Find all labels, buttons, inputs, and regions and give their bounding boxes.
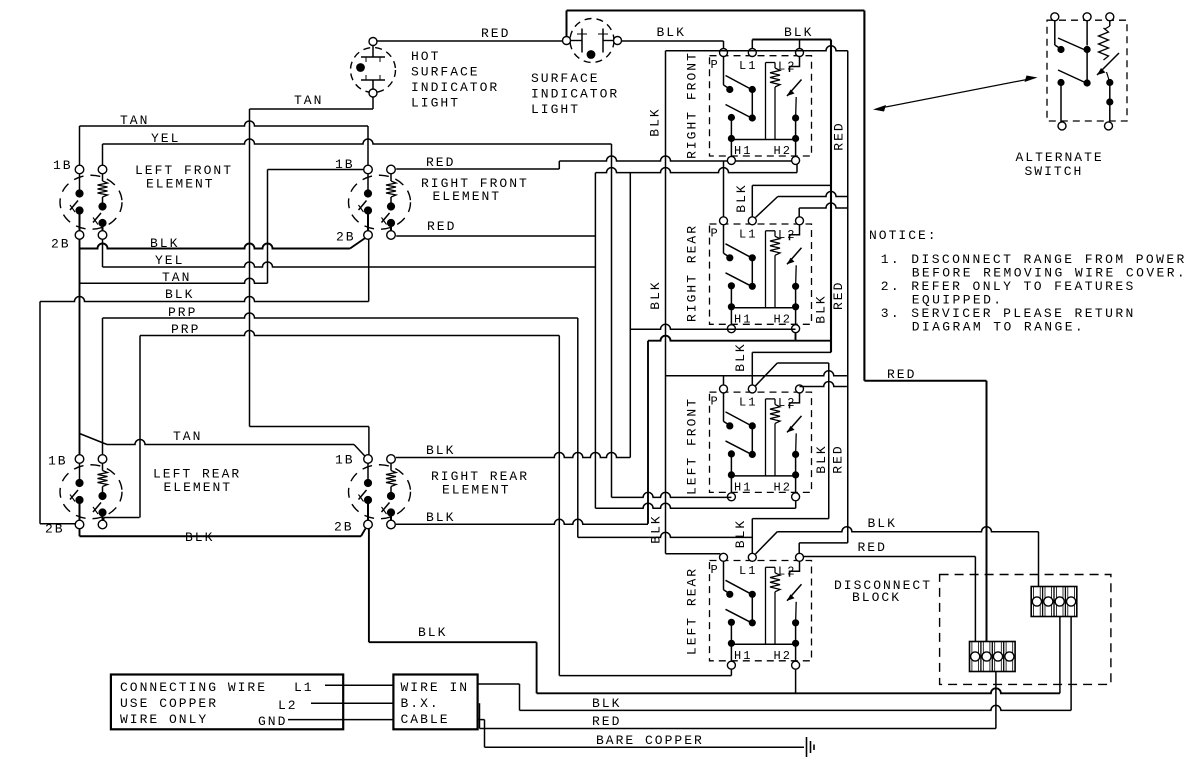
wire PRP to L1 block4 xyxy=(578,532,753,537)
wire L1 block4 diagonal BLK to disconnect xyxy=(756,527,1039,587)
svg-text:PRP: PRP xyxy=(168,305,197,320)
wire BLK right rear TR run xyxy=(396,453,630,458)
svg-text:B.X.: B.X. xyxy=(401,696,440,711)
svg-text:H2: H2 xyxy=(774,312,792,326)
label RED rotated block3-right xyxy=(831,444,846,473)
label BARE COPPER xyxy=(596,733,704,748)
label BLK rotated block4 L1 xyxy=(733,519,748,548)
label BLK right rear top xyxy=(426,443,455,458)
label DISCONNECT BLOCK xyxy=(834,578,932,605)
svg-text:BLK: BLK xyxy=(426,510,455,525)
svg-text:L2: L2 xyxy=(778,564,796,578)
svg-text:2B: 2B xyxy=(336,230,356,245)
svg-text:RIGHT REAR: RIGHT REAR xyxy=(685,224,700,322)
svg-text:RED: RED xyxy=(592,714,621,729)
wire L1 block3 diagonal to vertical 828 xyxy=(756,363,829,519)
svg-text:YEL: YEL xyxy=(151,131,180,146)
label L1 terminal xyxy=(294,680,314,695)
wire H2 block3 feed xyxy=(595,501,795,508)
wire RED hot-light to surface-light xyxy=(377,40,563,42)
wire TAN upper bus to both 1B terminals xyxy=(80,121,369,165)
svg-text:BLK: BLK xyxy=(814,294,829,323)
label LEFT FRONT ELEMENT xyxy=(135,163,233,192)
terminal strip upper xyxy=(1031,587,1077,617)
wire L2 block3 to vertical 847 xyxy=(800,382,847,387)
svg-text:L2: L2 xyxy=(278,698,298,713)
label 1B left front xyxy=(53,158,73,173)
svg-text:BLK: BLK xyxy=(733,342,748,371)
wire L1 block4 riser xyxy=(752,519,828,554)
svg-text:BLK: BLK xyxy=(426,443,455,458)
label RIGHT FRONT ELEMENT xyxy=(421,176,529,204)
svg-text:LIGHT: LIGHT xyxy=(411,96,460,111)
label BLK bottom xyxy=(592,696,621,711)
svg-text:BLK: BLK xyxy=(648,514,663,543)
svg-text:H2: H2 xyxy=(774,144,792,158)
svg-text:1B: 1B xyxy=(48,454,68,469)
wire L2 block4 jog from vertical 847 xyxy=(799,543,848,553)
wire PRP to H1 block4 xyxy=(559,669,731,675)
label SURFACE INDICATOR LIGHT xyxy=(531,71,619,117)
label YEL bus 267 xyxy=(155,253,184,268)
wire L1 block3 riser xyxy=(752,352,831,385)
svg-text:P: P xyxy=(711,58,720,72)
svg-text:P: P xyxy=(711,563,720,577)
svg-text:WIRE IN: WIRE IN xyxy=(401,680,470,695)
label TAN upper bus xyxy=(120,113,149,128)
svg-text:2B: 2B xyxy=(334,520,354,535)
svg-text:RED: RED xyxy=(858,540,887,555)
ground symbol xyxy=(807,737,815,757)
wire RED net top run (surface light left terminal over to right) xyxy=(567,11,865,381)
svg-text:GND: GND xyxy=(258,714,287,729)
wire RED bottom line from L2 through box xyxy=(480,703,996,728)
svg-text:L1: L1 xyxy=(739,227,757,241)
label BLK bottom mid xyxy=(418,625,447,640)
label BLK rotated block1-left xyxy=(648,107,663,136)
label NOTICE heading xyxy=(869,228,938,243)
wire RED main from top to disconnect xyxy=(864,381,986,642)
wire BLK to P4 xyxy=(666,553,721,555)
svg-text:SURFACE: SURFACE xyxy=(411,65,480,80)
label 2B left front xyxy=(51,237,71,252)
label BLK bus 301 xyxy=(165,287,194,302)
wire L1 leader xyxy=(325,684,393,686)
svg-text:BLK: BLK xyxy=(734,183,749,212)
label LEFT REAR rotated xyxy=(685,567,700,655)
switch block left front SW3 xyxy=(710,385,812,501)
label BLK top-1 xyxy=(657,25,686,40)
svg-text:L1: L1 xyxy=(739,564,757,578)
wire GND leader xyxy=(288,719,393,721)
label RED rotated block2-right xyxy=(831,281,846,310)
svg-text:L1: L1 xyxy=(739,395,757,409)
label RED top xyxy=(481,26,510,41)
svg-text:BLK: BLK xyxy=(814,444,829,473)
svg-text:H1: H1 xyxy=(734,312,752,326)
svg-text:RED: RED xyxy=(426,155,455,170)
svg-text:BARE COPPER: BARE COPPER xyxy=(596,733,704,748)
svg-text:RED: RED xyxy=(831,281,846,310)
svg-text:BLK: BLK xyxy=(784,25,813,40)
dashed box alternate switch xyxy=(1047,20,1127,121)
dashed box DISCONNECT BLOCK xyxy=(940,575,1111,685)
svg-text:H2: H2 xyxy=(774,480,792,494)
svg-text:L2: L2 xyxy=(778,396,796,410)
wire H2 block4 drop xyxy=(795,669,797,693)
switch block right front SW1 xyxy=(710,49,812,165)
wire BLK right rear BR run xyxy=(396,519,648,524)
label RED right front top xyxy=(426,155,455,170)
svg-text:LEFT FRONT: LEFT FRONT xyxy=(685,397,700,495)
svg-text:SURFACE: SURFACE xyxy=(531,71,600,86)
svg-text:HOT: HOT xyxy=(411,49,440,64)
svg-text:INDICATOR: INDICATOR xyxy=(531,87,619,102)
wire vertical from TAN-node to right rear 1B xyxy=(250,427,369,455)
label BLK rotated block2 L1 xyxy=(734,183,749,212)
wire YEL upper bus xyxy=(103,139,612,497)
svg-text:ELEMENT: ELEMENT xyxy=(164,480,233,495)
label 2B right rear xyxy=(334,520,354,535)
svg-text:H1: H1 xyxy=(734,480,752,494)
node vertical from TAN down left bus xyxy=(249,109,251,427)
wire BLK diag into L1 block2 xyxy=(756,192,848,218)
switch block left rear SW4 xyxy=(710,553,812,669)
svg-text:H1: H1 xyxy=(734,144,752,158)
wire RED right front element to H1 row xyxy=(396,156,795,169)
svg-text:PRP: PRP xyxy=(171,322,200,337)
wire far-left vertical to left rear 2B xyxy=(40,523,75,525)
element right rear xyxy=(349,455,411,529)
svg-text:TAN: TAN xyxy=(120,113,149,128)
svg-text:SWITCH: SWITCH xyxy=(1025,164,1084,179)
wire TAN bus 283 xyxy=(80,278,268,283)
svg-text:1B: 1B xyxy=(335,453,355,468)
svg-text:CABLE: CABLE xyxy=(401,712,450,727)
svg-text:BLK: BLK xyxy=(648,280,663,309)
label PRP bus 335 xyxy=(171,322,200,337)
label RIGHT REAR rotated xyxy=(685,224,700,322)
label RED disconnect feed xyxy=(887,367,916,382)
wire PRP bus 318 left rear TR to mid vertical xyxy=(103,313,578,537)
wire BLK vertical from corner 665 downward xyxy=(666,46,848,554)
label BLK top-2 xyxy=(784,25,813,40)
label BLK bus 248 xyxy=(150,236,179,251)
label RED lower feed xyxy=(858,540,887,555)
svg-text:CONNECTING WIRE: CONNECTING WIRE xyxy=(120,680,267,695)
svg-text:RED: RED xyxy=(832,121,847,150)
label BLK rotated block3-right xyxy=(814,444,829,473)
label WIRE IN B.X. CABLE xyxy=(401,680,470,727)
svg-text:2B: 2B xyxy=(51,237,71,252)
wire upper strip T4 down xyxy=(1070,617,1072,711)
svg-text:L1: L1 xyxy=(739,59,757,73)
svg-text:ELEMENT: ELEMENT xyxy=(146,177,215,192)
wire RED from L2 block4 to disconnect xyxy=(804,557,976,643)
svg-text:BLK: BLK xyxy=(150,236,179,251)
wire 1B jumper right front xyxy=(268,170,364,284)
svg-text:1B: 1B xyxy=(53,158,73,173)
svg-text:P: P xyxy=(711,226,720,240)
wire L1 block2 riser to 831 xyxy=(752,185,831,217)
wire H2 block1 jog to long bus xyxy=(595,165,797,173)
wire BLK bus left front 2B to right front 2B xyxy=(80,238,366,455)
wire L2 leader xyxy=(311,702,393,704)
element right front xyxy=(349,165,411,239)
label CONNECTING WIRE USE COPPER WIRE ONLY xyxy=(120,680,267,727)
wire upper strip T3 down xyxy=(1059,617,1061,694)
alternate switch internals xyxy=(1051,13,1119,130)
svg-text:H2: H2 xyxy=(774,649,792,663)
label notice item 1 xyxy=(881,252,1187,281)
wire TAN lower bus xyxy=(80,434,365,457)
svg-text:BLK: BLK xyxy=(648,107,663,136)
svg-text:INDICATOR: INDICATOR xyxy=(411,80,499,95)
svg-text:BLK: BLK xyxy=(165,287,194,302)
wire TAN hot-light drop xyxy=(250,97,374,109)
hot surface indicator light HS1 xyxy=(351,38,396,98)
wire PRP-140 to left rear BR xyxy=(104,518,140,521)
wire H1 block3 feed from YEL xyxy=(612,492,732,497)
label RIGHT FRONT rotated xyxy=(685,51,700,159)
svg-text:YEL: YEL xyxy=(155,253,184,268)
wire BLK from right rear 2B down to bottom xyxy=(369,529,537,694)
wire lower strip T3 down xyxy=(995,672,997,729)
arrow to alternate switch xyxy=(873,76,1038,112)
svg-text:P: P xyxy=(711,394,720,408)
wire H row block2 feed xyxy=(630,173,795,458)
wire PRP bus 335 to mid vertical xyxy=(140,331,559,676)
svg-text:BLK: BLK xyxy=(657,25,686,40)
label TAN hot-light xyxy=(294,93,323,108)
terminal strip lower xyxy=(970,642,1016,672)
wire BARE COPPER ground line xyxy=(478,720,804,748)
label LEFT REAR ELEMENT xyxy=(153,467,241,496)
svg-text:USE COPPER: USE COPPER xyxy=(120,696,218,711)
svg-text:RED: RED xyxy=(887,367,916,382)
wire H2 block2 jog to 831 xyxy=(648,333,831,524)
label BLK rotated block2-left xyxy=(648,280,663,309)
label PRP bus 318 xyxy=(168,305,197,320)
wire BLK surface-light to switch P1 xyxy=(622,41,724,48)
svg-text:BLOCK: BLOCK xyxy=(852,590,901,605)
label BLK right rear bottom xyxy=(426,510,455,525)
svg-text:L1: L1 xyxy=(294,680,314,695)
label TAN bus 283 xyxy=(162,270,191,285)
svg-text:BLK: BLK xyxy=(418,625,447,640)
wire L2 block2 riser jog xyxy=(799,203,848,217)
svg-text:RED: RED xyxy=(427,219,456,234)
label ALTERNATE SWITCH xyxy=(1016,150,1104,179)
label BLK disconnect feed xyxy=(868,516,897,531)
svg-text:H1: H1 xyxy=(734,649,752,663)
wire BLK to P3 xyxy=(666,371,847,386)
label RED right front bottom xyxy=(427,219,456,234)
box WIRE IN B.X. CABLE xyxy=(393,675,477,730)
wire P2 riser xyxy=(723,161,725,217)
wire YEL bus left front BR to vertical xyxy=(103,239,596,267)
label RED bottom xyxy=(592,714,621,729)
svg-text:RED: RED xyxy=(831,444,846,473)
svg-text:TAN: TAN xyxy=(162,270,191,285)
svg-text:LIGHT: LIGHT xyxy=(531,102,580,117)
svg-text:ALTERNATE: ALTERNATE xyxy=(1016,150,1104,165)
label LEFT FRONT rotated xyxy=(685,397,700,495)
svg-text:WIRE ONLY: WIRE ONLY xyxy=(120,712,208,727)
label YEL upper bus xyxy=(151,131,180,146)
wire RED right front bottom to vertical bus xyxy=(396,173,595,509)
label L2 terminal xyxy=(278,698,298,713)
svg-text:LEFT REAR: LEFT REAR xyxy=(685,567,700,655)
svg-text:L2: L2 xyxy=(778,228,796,242)
label notice item 3 xyxy=(881,306,1136,335)
svg-text:ELEMENT: ELEMENT xyxy=(433,189,502,204)
switch block right rear SW2 xyxy=(710,217,812,333)
svg-text:RED: RED xyxy=(481,26,510,41)
wire BLK bus 301 from far-left vertical to right front 2B xyxy=(40,239,369,523)
label BLK rotated block2-right xyxy=(814,294,829,323)
wire BLK long bottom line xyxy=(537,688,1060,693)
wire BLK L1/L2 risers block1 to vertical 831 xyxy=(752,40,831,353)
label 2B right front xyxy=(336,230,356,245)
svg-text:BLK: BLK xyxy=(733,519,748,548)
svg-text:NOTICE:: NOTICE: xyxy=(869,228,938,243)
svg-text:TAN: TAN xyxy=(294,93,323,108)
label GND terminal xyxy=(258,714,287,729)
label TAN lower xyxy=(173,429,202,444)
label 2B left rear xyxy=(45,522,65,537)
label 1B left rear xyxy=(48,454,68,469)
svg-text:1B: 1B xyxy=(335,157,355,172)
element left front (heating element symbol) xyxy=(60,165,122,239)
label BLK rotated block3 L1 xyxy=(733,342,748,371)
svg-text:ELEMENT: ELEMENT xyxy=(442,483,511,498)
label notice item 2 xyxy=(881,279,1136,308)
box CONNECTING WIRE xyxy=(111,675,343,730)
label 1B right rear xyxy=(335,453,355,468)
svg-text:BLK: BLK xyxy=(185,530,214,545)
label 1B right front xyxy=(335,157,355,172)
surface indicator light SI1 xyxy=(563,19,622,63)
svg-text:RIGHT FRONT: RIGHT FRONT xyxy=(685,51,700,159)
svg-text:TAN: TAN xyxy=(173,429,202,444)
label RED rotated block1 xyxy=(832,121,847,150)
label RIGHT REAR ELEMENT xyxy=(431,469,529,498)
label BLK lower bus xyxy=(185,530,214,545)
svg-text:DIAGRAM TO RANGE.: DIAGRAM TO RANGE. xyxy=(912,320,1085,335)
label BLK rotated mid-lower xyxy=(648,514,663,543)
svg-text:L2: L2 xyxy=(778,60,796,74)
svg-text:BLK: BLK xyxy=(868,516,897,531)
wire BLK bottom line from L1 through box xyxy=(478,684,1072,710)
wire BLK lower bus left rear 2B to right rear 2B xyxy=(80,529,366,537)
label HOT SURFACE INDICATOR LIGHT xyxy=(411,49,499,111)
svg-text:BLK: BLK xyxy=(592,696,621,711)
element left rear xyxy=(60,455,122,529)
